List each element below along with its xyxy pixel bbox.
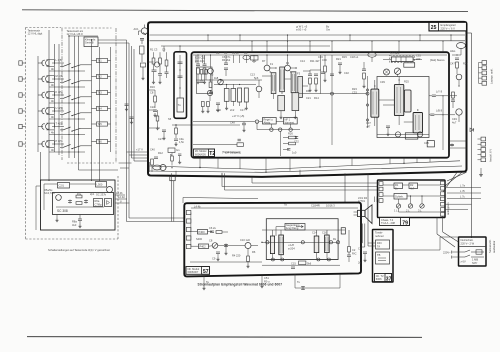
transistor block Q21 output: [314, 236, 319, 253]
IC U2 decoder: [394, 84, 403, 115]
wire: osc feed from switch bank: [91, 180, 93, 181]
svg-text:+17 V (+5): +17 V (+5): [232, 114, 244, 118]
resistor R14 row box: [97, 106, 108, 110]
wire: bottom tap x352: [351, 158, 353, 166]
small box: balance pot block: [199, 244, 209, 249]
wire: bottom tap x430: [429, 158, 431, 162]
wire: row 4 to bus: [81, 112, 92, 114]
switch S5.1b wafer contact: [46, 124, 48, 130]
svg-text:Stromlaufplan Empfangsteil Wav: Stromlaufplan Empfangsteil Wavemat 6006 …: [198, 282, 283, 286]
wire: drop bundle 1: [170, 173, 172, 221]
svg-text:a-204: a-204: [288, 247, 295, 251]
wire: bundle h into box 3: [132, 157, 149, 159]
label block 57 number cell: [202, 267, 210, 275]
wire: q5 links: [258, 80, 260, 86]
node: junction circle agc in: [255, 120, 258, 123]
socket: oval marker top: [368, 52, 376, 57]
terminal block Klemmbrett: [84, 37, 98, 47]
ground: amp drop gnd: [202, 286, 205, 290]
capacitor C38a: [308, 73, 312, 75]
svg-text:DIN: DIN: [377, 241, 382, 245]
capacitor C43: [430, 113, 434, 115]
wire: midlink 3: [251, 177, 253, 183]
wire: row 3 link: [38, 94, 43, 96]
node: junction dots top: [68, 35, 69, 36]
capacitor C26: [174, 138, 178, 140]
svg-text:[C4 Goldpfeil]: [C4 Goldpfeil]: [225, 150, 241, 154]
svg-text:Si/Tr: Si/Tr: [472, 261, 478, 265]
switch S4.1b wafer contact: [46, 108, 48, 114]
svg-text:R1 C3: R1 C3: [150, 48, 158, 52]
wire: row 1 box feed: [92, 60, 97, 62]
wire: IF area rail a: [196, 79, 262, 81]
wire: row 3 box feed: [92, 92, 97, 94]
svg-text:R25: R25: [404, 80, 409, 84]
connector pin K1: [379, 182, 383, 186]
wire: q20 links: [251, 245, 258, 247]
module outline: Netzschalter box: [459, 237, 487, 266]
transistor block Q22 output: [325, 235, 330, 253]
node: bottom rail circles: [271, 258, 274, 261]
svg-text:Ch. T2: Ch. T2: [376, 274, 384, 278]
wire: slant 3 bottomright: [443, 172, 457, 192]
svg-text:1u0: 1u0: [292, 151, 297, 155]
connector pin C4: [481, 153, 486, 157]
svg-text:220V~: 220V~: [443, 251, 451, 255]
wire: bundle h into box 2: [129, 154, 148, 156]
wire: bottom tap x404: [403, 158, 405, 164]
svg-text:R12: R12: [158, 151, 163, 155]
potentiometer P1: [394, 68, 400, 74]
transistor Q8b: [395, 132, 400, 137]
wire: 79 pin risers: [374, 197, 376, 203]
capacitor C22: [158, 73, 162, 75]
wire: long vertical at 332: [331, 55, 333, 145]
node: osc dots: [165, 167, 166, 168]
wire: c43 link: [429, 114, 430, 116]
svg-text:6006/005: 6006/005: [195, 152, 206, 156]
enclosure: keyboard unit dashed outline left: [25, 28, 27, 240]
wire: bottom tap x417: [416, 158, 418, 163]
svg-text:R1: R1: [395, 183, 399, 187]
connector pin X1.5 keyboard: [19, 124, 22, 128]
capacitor C19 bundle: [125, 103, 129, 105]
wire: row 1 sub-wire: [49, 70, 85, 72]
IF transformer T5a: [271, 73, 276, 94]
enclosure: keyboard unit dashed bottom: [26, 238, 119, 240]
svg-text:C18/4R: C18/4R: [311, 204, 320, 208]
wire: row 5 sub-wire: [49, 134, 85, 136]
wire: speaker terminals: [354, 211, 358, 213]
capacitor C55: [362, 68, 366, 70]
switch S6.1b wafer contact: [46, 141, 48, 147]
wire: right edge long lines to pins: [447, 187, 481, 189]
label block 79 number cell: [401, 218, 410, 226]
wire: if tap x233.3: [232, 55, 234, 63]
svg-text:R6a: R6a: [95, 199, 100, 203]
svg-text:R21: R21: [336, 57, 341, 61]
wire: amp top rail 2: [262, 229, 345, 231]
resistor R55: [363, 73, 366, 79]
ground: c34a gnd: [216, 108, 219, 112]
svg-text:P400: P400: [199, 230, 206, 234]
capacitor C72: [85, 200, 87, 204]
wire: bank2 top link: [69, 35, 98, 37]
component stack: nf coupling r1: [289, 136, 296, 139]
connector pin M1: [441, 181, 445, 185]
resistor R62: [452, 92, 455, 98]
wire: bundle h into box 1: [127, 151, 149, 153]
module outline: mixer stage thin box: [197, 67, 212, 94]
switch S3.2 changeover arrow: [63, 96, 71, 99]
wire: slant 1 bottomright: [447, 172, 467, 181]
capacitor C23: [165, 71, 169, 73]
resistor R80: [216, 231, 222, 234]
wire: mixer out: [166, 74, 168, 78]
switch S3.1 wafer contact: [42, 92, 44, 98]
label block T2 number cell: [209, 149, 215, 157]
component: left edge small parts: [156, 116, 159, 121]
wire: c55 r55: [363, 62, 365, 69]
module outline: TA connector box 37: [373, 230, 394, 283]
ground: c96 gnd: [162, 136, 165, 140]
wire: amp bottom rail: [190, 261, 262, 263]
wire: 79 to netz 2: [436, 218, 438, 235]
node: if1 dots: [197, 54, 198, 55]
IF transformer T5f lower: [292, 93, 299, 111]
connector pin N4 amp: [186, 236, 191, 240]
wire: r29 link: [171, 153, 173, 157]
connector pin M6: [441, 208, 445, 212]
connector pin X1.3 keyboard: [19, 93, 22, 97]
capacitor C38c: [321, 71, 325, 73]
component: varicap box right: [105, 199, 112, 207]
svg-text:C6 47n: C6 47n: [222, 55, 231, 59]
wire: IF area rail b: [214, 84, 256, 86]
resistor R61: [456, 62, 459, 68]
wire: right col drops: [348, 230, 350, 247]
svg-text:C27: C27: [158, 137, 163, 141]
svg-text:M 4(5): M 4(5): [56, 74, 64, 78]
wire: row 2 sub-wire: [49, 86, 85, 88]
svg-text:L 7a: L 7a: [460, 183, 466, 187]
wire: bank link down b: [48, 152, 50, 181]
svg-text:220 V~ / 6 V: 220 V~ / 6 V: [441, 26, 456, 30]
svg-text:C22: C22: [150, 105, 155, 109]
node: right col junctions: [442, 95, 443, 96]
node: amp rail dots: [225, 245, 226, 246]
transistor Q11 osc inner: [56, 195, 62, 201]
switch S1.1 wafer contact: [42, 60, 44, 66]
wire: t3 t4 links: [226, 84, 228, 89]
resistor R15 row box: [97, 122, 108, 126]
wire: row 6 box feed: [92, 141, 97, 143]
capacitor C33a: [200, 80, 204, 82]
small box: osc trimmer C40: [168, 148, 175, 153]
ground: c42 gnd: [242, 128, 245, 132]
capacitor C24 lower: [153, 109, 157, 111]
ground: left mid gnd: [156, 126, 159, 130]
resistor R31: [197, 68, 200, 74]
wire: row 3 to bus: [81, 96, 92, 98]
wire: ic rect tails: [272, 254, 274, 260]
svg-text:P 4(5): P 4(5): [56, 139, 63, 143]
resistor R71: [76, 195, 82, 198]
transistor Q6 IF3: [264, 65, 270, 71]
wire: switch bank vertical bus i: [99, 47, 101, 170]
ground: amp in gnd: [224, 251, 227, 255]
svg-text:L 7b: L 7b: [460, 189, 466, 193]
wire: ic links 1: [374, 80, 376, 89]
wire: if tap x239.6: [239, 55, 241, 63]
svg-text:220 V~ 2 W: 220 V~ 2 W: [461, 241, 475, 245]
svg-text:ausbaubar: ausbaubar: [492, 241, 496, 253]
title block number cell 25: [429, 22, 439, 31]
svg-text:L 7c: L 7c: [460, 194, 466, 198]
capacitor C88 below amp: [302, 286, 304, 290]
transistor Q5 IF2: [256, 86, 262, 92]
resistor R91 box: [409, 183, 418, 189]
wire: amp in links: [191, 231, 198, 233]
switch S4.1 wafer contact: [42, 108, 44, 114]
wire: switch bank vertical bus g: [78, 36, 80, 170]
resistor R39: [315, 78, 318, 84]
svg-text:Ta5: Ta5: [98, 122, 103, 126]
wire: netz feed from top: [471, 237, 473, 238]
transistor Q2 mixer: [154, 62, 159, 67]
wire: demod feed: [303, 85, 309, 87]
svg-text:R4 2k2: R4 2k2: [222, 58, 231, 62]
wire: c34 drop: [225, 70, 227, 76]
wire: if tap x196: [195, 55, 197, 63]
small box: osc trimmer block: [58, 183, 70, 189]
component: crystal oval: [153, 165, 161, 170]
wire: right edge drops: [452, 98, 454, 100]
wire: speaker drop 2: [364, 224, 366, 248]
ground: phono gnd: [363, 258, 366, 262]
svg-text:1,5n: 1,5n: [179, 140, 185, 144]
capacitor C87: [347, 254, 351, 256]
switch S20 mains pole 1: [460, 251, 466, 253]
wire: bottom area rail: [262, 264, 340, 266]
node: coupling dot: [175, 124, 176, 125]
svg-text:nehmer: nehmer: [375, 234, 384, 238]
wire: left col riser: [367, 76, 369, 128]
wire: c57 drop: [339, 65, 341, 70]
socket: magic eye circle: [456, 109, 462, 115]
wire: row 6 link: [38, 143, 43, 145]
ground: if in g2: [203, 80, 206, 84]
connector pin B5: [482, 81, 487, 85]
transistor Q20 preamp: [245, 243, 251, 249]
svg-text:C48: C48: [230, 121, 235, 125]
svg-text:R2: R2: [410, 183, 414, 187]
svg-text:C16: C16: [318, 55, 323, 59]
node: riser junction circles: [366, 89, 368, 91]
svg-text:C15: C15: [291, 262, 296, 266]
resistor R90 box: [394, 183, 403, 189]
wire: switch bank vertical bus j: [110, 47, 112, 152]
connector pin B3: [482, 71, 487, 75]
wire: if tap x246.3: [245, 55, 247, 63]
component stack: nf coupling c1: [296, 136, 298, 139]
enclosure: dashed right edge lower: [117, 176, 119, 239]
wire: slant 2 bottomright: [445, 172, 462, 186]
switch S1.2 changeover arrow: [63, 64, 71, 67]
wire: signal line above amp: [183, 198, 258, 199]
ground: demod g1: [308, 88, 311, 92]
capacitor C34a: [216, 102, 220, 104]
resistor R32: [203, 68, 206, 74]
wire: osc links: [149, 162, 151, 172]
connector pin K4: [379, 199, 383, 203]
node: narrow box junctions: [179, 69, 180, 70]
resistor R29: [171, 156, 174, 161]
node: mid rail circles: [266, 241, 269, 244]
wire: output stage bottom rail: [266, 259, 338, 261]
wire: bundle to main box v4: [133, 49, 135, 161]
switch S5.1 wafer contact: [42, 124, 44, 130]
svg-text:[Dek] Stereo: [Dek] Stereo: [430, 58, 445, 62]
IF transformer T3 winding b: [231, 89, 236, 102]
svg-text:C18 u1: C18 u1: [350, 55, 359, 59]
wire: osc inner bottom: [56, 206, 104, 208]
svg-text:NF. Modul: NF. Modul: [188, 267, 200, 271]
switch S2.3 changeover arrow: [72, 81, 81, 84]
wire: bundle to main box v2: [128, 43, 130, 218]
wire: rail tap x208: [207, 35, 209, 41]
ground: t5 gnd b: [294, 115, 297, 119]
svg-text:Ta2: Ta2: [98, 75, 103, 79]
wire: agc in line: [193, 121, 255, 123]
wire: midlink 2: [224, 173, 226, 190]
svg-text:ankloppeln: ankloppeln: [446, 202, 450, 215]
svg-text:SC 308: SC 308: [57, 209, 68, 213]
capacitor C32: [203, 63, 207, 65]
wire: signal line drop: [182, 198, 184, 204]
svg-text:a-50 / +5: a-50 / +5: [296, 28, 307, 32]
wire: bus tap x443: [442, 41, 444, 52]
svg-text:4k7: 4k7: [410, 186, 415, 190]
svg-text:L2 4d: L2 4d: [118, 195, 125, 199]
wire: if tap x226: [225, 55, 227, 63]
resistor R33d: [207, 102, 210, 107]
svg-text:R5: R5: [210, 73, 214, 77]
wire: narrow box internals v: [179, 55, 181, 98]
wire: bottom border rule: [27, 336, 422, 339]
svg-text:Schalterstellungen auf Tastenz: Schalterstellungen auf Tastenzeile 3(4) …: [48, 248, 110, 252]
enclosure: switch bank 2 dash-dot right edge: [115, 28, 117, 163]
IF transformer T3 winding a: [224, 89, 229, 102]
node: rail dots: [226, 84, 227, 85]
component column right of inner box: [348, 247, 351, 253]
wire: right col vertical: [442, 96, 444, 150]
ground: t3 gnd: [225, 106, 228, 110]
label block 37 number cell: [385, 274, 392, 282]
wire: rail tap x287.5: [287, 35, 289, 41]
svg-text:S400: S400: [196, 237, 203, 241]
node: ic dots: [374, 85, 375, 86]
enclosure: switch bank 2 dashed bottom: [67, 162, 114, 164]
connector pin M5: [441, 202, 445, 206]
switch S2.1b wafer contact: [46, 76, 48, 82]
svg-text:z 6V: z 6V: [461, 260, 466, 264]
wire: row 2 link: [38, 78, 43, 80]
IC U4a driver: [270, 236, 274, 254]
capacitor C86: [291, 266, 295, 268]
wire: if tap x254: [253, 55, 255, 63]
capacitor C51: [386, 125, 390, 127]
svg-text:Abstg.: Abstg.: [264, 121, 272, 125]
resistor R34b: [205, 70, 208, 75]
ground: demod g2: [314, 88, 317, 92]
resistor R82: [247, 256, 250, 262]
resistor R2 under Q1: [140, 46, 145, 54]
connector pin B4: [482, 76, 487, 80]
IF transformer T5b: [280, 67, 285, 92]
switch S6.3 changeover arrow: [72, 146, 81, 149]
svg-text:C1: C1: [358, 247, 362, 251]
switch S6.1 wafer contact: [42, 141, 44, 147]
ground: c26 gnd: [174, 142, 177, 146]
svg-text:C47: C47: [450, 62, 455, 66]
switch S4.2 changeover arrow: [63, 112, 71, 115]
resistor R11 row box: [97, 58, 108, 62]
small box: volume pot block: [198, 230, 208, 235]
IF transformer T4 winding b: [244, 88, 248, 102]
switch S3.3 changeover arrow: [72, 97, 81, 100]
capacitor C57: [338, 62, 342, 64]
connector pin B1: [482, 61, 487, 65]
svg-text:C14: C14: [312, 231, 317, 235]
wire: bank jog 2: [120, 167, 129, 169]
enclosure: keyboard unit dashed top 1: [26, 27, 62, 29]
wire: row 6 sub-wire: [49, 151, 85, 153]
wire: amp mid rail long: [262, 241, 338, 243]
svg-text:2n2: 2n2: [252, 59, 257, 63]
switch S6.2 changeover arrow: [63, 145, 71, 148]
ground: mixer g1: [201, 109, 204, 113]
svg-text:C9: C9: [212, 257, 216, 261]
connector pin N5 amp: [186, 244, 191, 248]
switch S5.3 changeover arrow: [72, 128, 81, 131]
svg-text:1 L: 1 L: [394, 209, 398, 213]
wire: vertical link right of amp 2: [367, 173, 369, 204]
svg-text:Anschl. 6 V: Anschl. 6 V: [489, 149, 493, 162]
connector pin K3: [379, 193, 383, 197]
svg-text:R6: R6: [252, 250, 256, 254]
wire: mixer box drops: [201, 74, 203, 80]
wire: demod drops: [309, 84, 311, 88]
wire: outer right vertical 1: [471, 33, 473, 238]
wire: row 2 to bus: [81, 80, 92, 82]
wire: AGC bus bottom 1: [150, 166, 263, 170]
capacitor C34c: [224, 67, 228, 69]
svg-text:U 4(5): U 4(5): [56, 106, 63, 110]
wire: c41 link: [429, 95, 432, 97]
small box: r coupling right: [341, 228, 345, 234]
enclosure: dash-dot divider between switch banks: [61, 28, 63, 161]
wire: bottom tap x390: [389, 158, 391, 164]
switch S4.3 changeover arrow: [72, 113, 81, 116]
wire: bus tap x372: [371, 41, 373, 52]
wire: switch bank vertical bus b: [48, 30, 50, 152]
svg-text:C7/8p: C7/8p: [95, 202, 102, 206]
svg-text:Lautspr. ankl.: Lautspr. ankl.: [490, 68, 494, 84]
connector pin M4: [441, 197, 445, 201]
small box: phono jack lower: [376, 252, 390, 264]
wire: bus to bottom edge taps: [175, 171, 177, 177]
